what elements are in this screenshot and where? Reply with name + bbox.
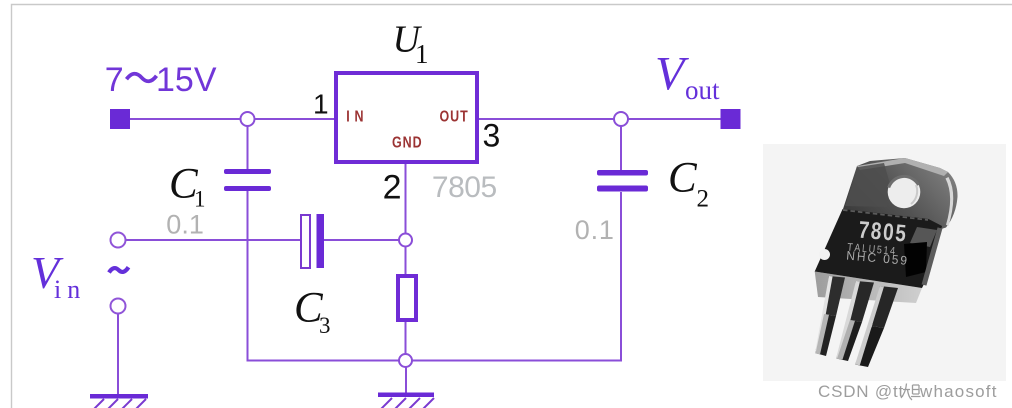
capacitor C1 bbox=[224, 169, 271, 191]
input terminal square bbox=[110, 109, 130, 129]
pin label OUT bbox=[440, 108, 469, 126]
wire: U1 GND pin 2 lead bbox=[405, 164, 407, 240]
svg-text:CSDN @tt: CSDN @tt bbox=[818, 382, 904, 401]
pin label GND bbox=[392, 134, 423, 152]
ground (right, under bottom node) bbox=[378, 393, 434, 408]
output terminal square bbox=[721, 109, 741, 129]
svg-text:0.1: 0.1 bbox=[575, 215, 615, 245]
wire: C2 upper lead bbox=[620, 119, 622, 170]
label Vin bbox=[31, 247, 86, 304]
wire: input terminal to U1 IN bbox=[130, 118, 334, 120]
AC tilde symbol bbox=[109, 267, 129, 272]
AC source top terminal bbox=[111, 233, 126, 248]
svg-text:7: 7 bbox=[105, 61, 124, 99]
wire: U1 OUT to output terminal bbox=[479, 118, 721, 120]
pin number 2 bbox=[383, 169, 402, 207]
svg-text:out: out bbox=[685, 75, 720, 105]
wire: C2 lower lead bbox=[620, 192, 622, 361]
photo background panel bbox=[763, 144, 1006, 381]
svg-text:3: 3 bbox=[319, 313, 331, 338]
svg-text:15V: 15V bbox=[156, 61, 217, 99]
resistor R1 bbox=[398, 276, 416, 320]
pin label IN bbox=[346, 108, 368, 126]
node B (GND pin node) bbox=[399, 234, 412, 247]
output node bbox=[614, 112, 628, 126]
wire: C3 to node B bbox=[324, 239, 406, 241]
label Vout bbox=[655, 48, 720, 106]
package underside flange bbox=[815, 272, 922, 304]
label C1 bbox=[169, 161, 206, 212]
wire: Vin top terminal to C3 bbox=[126, 239, 300, 241]
AC source bottom terminal bbox=[111, 299, 126, 314]
capacitor C3 bbox=[301, 214, 324, 268]
svg-text:whaosoft: whaosoft bbox=[919, 382, 998, 401]
watermark CSDN @tt姐whaosoft bbox=[818, 382, 998, 401]
label C2 bbox=[668, 155, 709, 213]
svg-text:1: 1 bbox=[415, 39, 429, 69]
svg-text:3: 3 bbox=[483, 118, 501, 154]
svg-text:IN: IN bbox=[346, 108, 368, 126]
wire: node B to resistor bbox=[405, 240, 407, 274]
bottom node bbox=[399, 354, 412, 367]
wire: C1 lower lead to bottom bus bbox=[247, 191, 249, 361]
ground (left, under Vin) bbox=[90, 394, 148, 408]
svg-text:in: in bbox=[54, 275, 86, 304]
label U1 bbox=[393, 19, 429, 70]
svg-text:C: C bbox=[668, 155, 698, 202]
svg-text:2: 2 bbox=[697, 186, 710, 213]
body front and side bbox=[815, 209, 942, 288]
wire: bottom bus bbox=[247, 360, 623, 362]
node A (input node) bbox=[241, 112, 255, 126]
value label 0.1 (C2) bbox=[575, 215, 615, 245]
photo: 7805 TO-220 package bbox=[815, 158, 958, 367]
legs bbox=[815, 276, 898, 367]
svg-text:1: 1 bbox=[194, 187, 206, 212]
wire: bottom node to ground bbox=[405, 366, 407, 393]
svg-text:GND: GND bbox=[392, 134, 423, 152]
pin number 1 bbox=[313, 88, 329, 119]
metal tab bbox=[843, 158, 958, 231]
wire: Vin bottom terminal to ground bbox=[117, 313, 119, 395]
pin number 3 bbox=[483, 118, 501, 154]
svg-text:OUT: OUT bbox=[440, 108, 469, 126]
value label 7805 bbox=[432, 171, 497, 204]
svg-text:0.1: 0.1 bbox=[166, 210, 204, 240]
svg-text:7805: 7805 bbox=[432, 171, 497, 204]
svg-text:2: 2 bbox=[383, 169, 402, 207]
svg-text:1: 1 bbox=[313, 88, 329, 119]
wire: C1 upper lead bbox=[247, 119, 249, 169]
label 7~15V bbox=[105, 61, 217, 99]
body markings bbox=[847, 221, 907, 265]
capacitor C2 bbox=[597, 170, 648, 192]
wire: resistor to bottom node bbox=[405, 322, 407, 360]
regulator U1 box bbox=[336, 73, 477, 162]
label C3 bbox=[294, 285, 331, 339]
value label 0.1 (C1) bbox=[166, 210, 204, 240]
svg-text:V: V bbox=[655, 48, 689, 101]
